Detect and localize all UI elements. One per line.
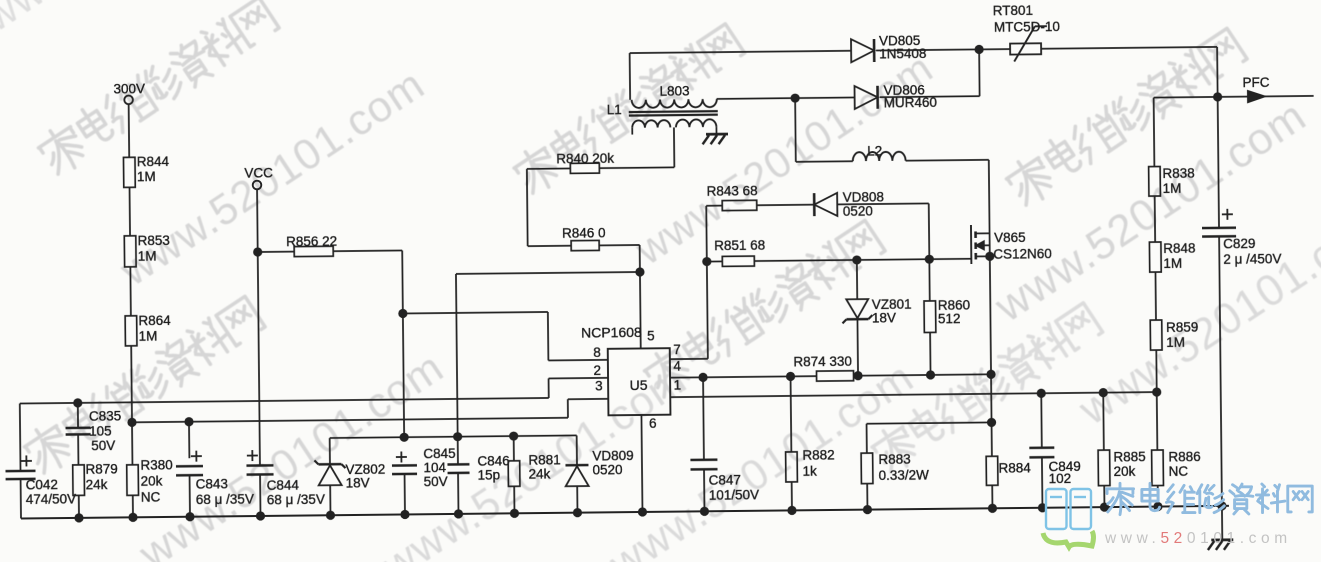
wire R843 to VD808: [757, 204, 814, 207]
wire R882 to ground bus: [791, 482, 793, 510]
svg-text:1: 1: [674, 377, 682, 392]
wire U5 pin 2 jog: [548, 378, 550, 397]
resistor R853: [124, 236, 136, 267]
svg-text:3: 3: [595, 378, 603, 393]
wire ground bus: [21, 506, 1229, 519]
svg-text:C846: C846: [477, 453, 509, 468]
capacitor C835: [77, 403, 79, 428]
svg-text:104: 104: [423, 460, 446, 475]
resistor R838 value 1M: [1149, 167, 1161, 197]
resistor R848 value 1M: [1149, 242, 1161, 272]
junction C835 tap: [73, 398, 82, 407]
svg-text:50V: 50V: [91, 438, 115, 453]
wire U5 pin 5: [639, 272, 642, 348]
wire VCC rail down to C845: [403, 313, 404, 437]
resistor R864: [125, 316, 137, 346]
capacitor C042: [19, 404, 22, 471]
svg-text:C845: C845: [423, 446, 455, 461]
svg-text:MTC5D-10: MTC5D-10: [994, 19, 1060, 35]
svg-text:1M: 1M: [138, 249, 157, 264]
svg-text:R883: R883: [878, 452, 910, 467]
svg-text:C835: C835: [89, 409, 121, 424]
wire VD806 to rectifier node: [880, 96, 980, 97]
wire R885 to ground bus: [1103, 486, 1105, 507]
wire C846 to ground bus: [457, 473, 459, 514]
wire C845 to ground bus: [404, 474, 406, 514]
svg-text:18V: 18V: [872, 310, 896, 325]
wire R886 to ground bus: [1157, 486, 1159, 507]
watermark cn1: [34, 0, 281, 178]
svg-text:R879: R879: [85, 462, 117, 477]
wire R848 to R859: [1154, 272, 1157, 320]
svg-text:R885: R885: [1113, 449, 1145, 464]
svg-text:1N5408: 1N5408: [879, 46, 926, 61]
svg-text:C829: C829: [1223, 236, 1255, 251]
svg-text:R843 68: R843 68: [707, 183, 758, 199]
svg-text:RT801: RT801: [993, 3, 1033, 18]
watermark url5: [600, 353, 922, 562]
wire divider node to R380: [131, 422, 133, 464]
junction R851 left: [702, 257, 711, 266]
svg-text:0520: 0520: [843, 204, 873, 219]
wire U5 pin 4: [670, 376, 816, 378]
junction rail R881: [509, 431, 518, 440]
watermark url2: [130, 343, 452, 562]
svg-text:R851 68: R851 68: [714, 237, 765, 253]
junction FB R886: [1152, 387, 1161, 396]
svg-text:1k: 1k: [802, 464, 817, 479]
watermark cn5: [1002, 25, 1249, 209]
junction pin4 C847: [698, 373, 707, 382]
capacitor C847 value 101/50V: [702, 377, 705, 459]
capacitor C829 value 2u/450V: [1218, 97, 1219, 228]
junction VZ801 top: [852, 255, 861, 264]
resistor R885 value 20k: [1102, 393, 1105, 450]
watermark corner: [0, 0, 263, 58]
resistor R844: [123, 157, 135, 187]
ground main: [1221, 506, 1223, 540]
diode VD805 value 1N5408: [851, 39, 874, 62]
wire R860 bottom: [929, 332, 931, 374]
junction C829 ground: [1217, 501, 1226, 510]
op-amp U5 NCP1608 controller IC: [608, 348, 671, 415]
svg-text:R848: R848: [1163, 241, 1195, 256]
svg-text:NC: NC: [1168, 464, 1188, 479]
svg-text:0.33/2W: 0.33/2W: [879, 467, 930, 483]
transistor V865 MOSFET CS12N60: [970, 225, 972, 264]
wire R874 to source line: [854, 374, 991, 375]
svg-text:R844: R844: [137, 154, 170, 169]
wire C835 to R879: [77, 434, 79, 464]
wire comp rail: [330, 435, 577, 438]
svg-text:R380: R380: [140, 457, 172, 472]
ground L803 secondary: [706, 133, 728, 136]
svg-text:68 μ /35V: 68 μ /35V: [267, 492, 325, 508]
resistor R840 value 20k: [599, 166, 674, 169]
svg-text:68 μ /35V: 68 μ /35V: [196, 491, 254, 507]
resistor R856 value 22: [258, 251, 294, 253]
resistor R883 value 0.33/2W: [866, 424, 868, 453]
svg-text:105: 105: [89, 424, 112, 439]
junction VCC R856 tap: [253, 247, 262, 256]
watermark url3: [373, 355, 695, 562]
wire C847 to ground bus: [703, 469, 705, 511]
svg-text:1M: 1M: [137, 169, 156, 184]
svg-text:4: 4: [673, 358, 681, 373]
svg-text:R886: R886: [1168, 449, 1200, 464]
logo site name: [1106, 483, 1312, 514]
wire R879 to ground bus: [78, 495, 80, 517]
watermark url1: [111, 60, 433, 296]
wire R881 to ground bus: [513, 486, 515, 513]
svg-text:7: 7: [673, 342, 681, 357]
diode VD808 value 0520: [813, 193, 816, 216]
node PFC output: [1154, 96, 1314, 98]
wire R844 to R853: [129, 187, 132, 235]
svg-text:R881: R881: [528, 452, 560, 467]
junction VZ801 bottom: [853, 371, 862, 380]
logo book base: [1043, 531, 1094, 547]
diode VD806 value MUR460: [855, 86, 878, 109]
capacitor C846 value 15p: [457, 437, 459, 465]
wire R884 to ground bus: [991, 485, 993, 508]
svg-text:L803: L803: [659, 84, 689, 99]
svg-text:L1: L1: [607, 102, 622, 117]
wire VD805 line: [630, 51, 851, 53]
wire VD805 to RT junction: [876, 49, 1010, 50]
junction rail C846: [453, 432, 462, 441]
junction R879 ground: [74, 513, 83, 522]
svg-text:CS12N60: CS12N60: [993, 246, 1052, 262]
wire RT801 to PFC corner: [1041, 47, 1217, 49]
junction C843 tap: [184, 417, 193, 426]
capacitor C844: [247, 455, 258, 457]
wire VD806 line: [717, 98, 855, 99]
svg-text:NC: NC: [141, 489, 161, 504]
svg-text:R859: R859: [1166, 320, 1198, 335]
junction PFC C829: [1213, 92, 1222, 101]
junction L2 tap: [790, 93, 799, 102]
junction divider node: [127, 418, 136, 427]
svg-text:R838: R838: [1162, 166, 1194, 181]
wire V865 source down: [990, 256, 992, 456]
svg-text:1M: 1M: [1163, 181, 1182, 196]
zener diode VZ802 value 18V: [329, 438, 331, 464]
wire R859 to FB line: [1155, 350, 1157, 392]
svg-text:5: 5: [647, 328, 655, 343]
svg-text:R856 22: R856 22: [286, 233, 337, 249]
wire L2 tap down: [794, 98, 797, 162]
svg-text:2 μ /450V: 2 μ /450V: [1223, 251, 1281, 267]
svg-text:R874 330: R874 330: [793, 354, 852, 370]
svg-text:V865: V865: [994, 230, 1026, 245]
svg-text:C847: C847: [709, 473, 741, 488]
junction rail C845: [400, 433, 409, 442]
wire R380 to ground bus: [132, 495, 134, 517]
arrow PFC: [1248, 90, 1266, 102]
capacitor C845: [396, 456, 407, 458]
wire R840 to R846: [527, 167, 570, 169]
svg-text:102: 102: [1049, 471, 1072, 486]
junction source R874: [986, 370, 995, 379]
svg-text:15p: 15p: [477, 467, 500, 482]
watermark url6: [986, 91, 1315, 332]
svg-text:20k: 20k: [141, 473, 163, 488]
wire C844 to ground bus: [259, 474, 261, 515]
wire secondary tap to R840: [673, 127, 675, 167]
junction FB C849: [1037, 389, 1046, 398]
svg-text:0520: 0520: [592, 462, 622, 477]
wire secondary left stub: [631, 128, 633, 135]
wire R883 top link: [867, 422, 992, 423]
wire FB to R886: [1156, 392, 1159, 450]
wire R846 to pin5 node: [599, 244, 639, 246]
resistor R881 value 24k: [513, 436, 515, 461]
wire pin8 tap to U5 pin 8: [403, 312, 548, 314]
svg-text:101/50V: 101/50V: [709, 487, 759, 503]
resistor R860 value 512: [928, 259, 930, 301]
svg-text:24k: 24k: [528, 466, 550, 481]
watermark cn2: [20, 293, 267, 477]
wire C829 to ground bus: [1219, 236, 1222, 505]
svg-text:20k: 20k: [1113, 464, 1135, 479]
junction R860 bottom: [926, 370, 935, 379]
svg-text:50V: 50V: [424, 474, 448, 489]
wire L2 to V865 drain: [906, 159, 989, 162]
resistor R846 value 0: [571, 240, 599, 250]
svg-text:R840 20k: R840 20k: [556, 151, 614, 167]
junction source R883: [987, 418, 996, 427]
svg-text:512: 512: [938, 311, 961, 326]
watermark url4: [626, 44, 941, 274]
svg-text:1M: 1M: [1166, 335, 1185, 350]
junction V865 source: [985, 252, 994, 261]
zener diode VZ801 value 18V: [856, 260, 858, 299]
svg-text:PFC: PFC: [1242, 75, 1269, 90]
svg-text:R884: R884: [998, 460, 1031, 475]
wire C849 to ground bus: [1041, 457, 1044, 507]
capacitor C849 value 102: [1040, 393, 1043, 447]
wire U5 pin 6 to ground bus: [641, 415, 642, 512]
wire R864 to FB divider node: [130, 346, 133, 422]
resistor R843 value 68: [706, 205, 722, 207]
svg-text:NCP1608: NCP1608: [581, 324, 642, 341]
svg-text:6: 6: [649, 416, 657, 431]
wire VCC down to C844: [257, 189, 260, 465]
wire R843 R851 left link: [705, 206, 708, 262]
wire secondary right to ground: [715, 127, 717, 134]
wire R853 to R864: [129, 267, 132, 316]
inductor L803 secondary winding: [632, 120, 670, 128]
junction pin5 node: [635, 267, 644, 276]
inductor L803 transformer primary: [629, 53, 631, 100]
thermistor RT801 value MTC5D-10: [1010, 43, 1041, 54]
svg-text:R882: R882: [802, 448, 834, 463]
capacitor C843: [188, 422, 190, 458]
watermark cn3: [510, 21, 747, 197]
junction R380 ground: [128, 513, 137, 522]
svg-text:R846 0: R846 0: [562, 226, 606, 241]
svg-text:18V: 18V: [346, 475, 370, 490]
wire VD808 to R860 top: [837, 202, 928, 205]
svg-text:VD809: VD809: [592, 448, 633, 463]
wire gate line: [754, 259, 971, 261]
junction R860 top: [925, 255, 934, 264]
wire U5 pin 1 FB east run: [670, 392, 1156, 397]
wire R883 to ground bus: [866, 484, 868, 510]
resistor R879: [73, 465, 85, 496]
watermark cn4: [640, 217, 887, 401]
svg-text:24k: 24k: [86, 477, 108, 492]
wire U5 pin 7: [670, 358, 708, 360]
resistor R884: [986, 456, 998, 485]
svg-text:C843: C843: [196, 476, 228, 491]
svg-text:VCC: VCC: [244, 165, 273, 180]
svg-text:2: 2: [593, 363, 601, 378]
resistor R882 value 1k: [790, 376, 793, 451]
wire FB line left run: [20, 398, 549, 404]
svg-text:R853: R853: [138, 233, 170, 248]
svg-text:L2: L2: [867, 143, 882, 158]
junction FB R885: [1099, 388, 1108, 397]
wire PFC down to R838: [1153, 98, 1156, 167]
watermark url7: [1070, 194, 1321, 435]
wire C843 to ground bus: [189, 475, 191, 516]
svg-text:U5: U5: [630, 377, 648, 393]
inductor L2: [796, 160, 853, 163]
junction rectifier node: [974, 45, 983, 54]
svg-text:C042: C042: [26, 477, 58, 492]
svg-text:8: 8: [593, 345, 601, 360]
wire R856 to VCC rail corner: [333, 249, 402, 252]
wire U5 pin 3 run: [132, 418, 568, 423]
svg-text:474/50V: 474/50V: [26, 491, 76, 507]
junction VCC rail pin8 tap: [398, 309, 407, 318]
svg-text:VD808: VD808: [843, 190, 884, 205]
svg-text:300V: 300V: [113, 81, 145, 96]
resistor R851 value 68: [707, 260, 722, 262]
svg-text:1M: 1M: [1163, 256, 1182, 271]
resistor R886 NC: [1152, 450, 1164, 486]
watermark cn6: [868, 300, 1105, 476]
resistor R380: [127, 465, 139, 496]
svg-text:1M: 1M: [139, 329, 158, 344]
resistor R859 value 1M: [1150, 320, 1162, 350]
svg-text:R864: R864: [138, 313, 171, 328]
wire R838 to R848: [1154, 196, 1156, 242]
wire 300V to R844: [128, 104, 131, 157]
wire pin5 node west: [456, 272, 640, 274]
diode VD809 value 0520: [576, 435, 578, 465]
svg-text:www.520101.com: www.520101.com: [1104, 530, 1292, 547]
resistor R874 value 330: [816, 371, 853, 381]
logo book icon: [1046, 489, 1091, 529]
svg-text:C844: C844: [267, 478, 300, 493]
transformer core: [629, 110, 718, 113]
